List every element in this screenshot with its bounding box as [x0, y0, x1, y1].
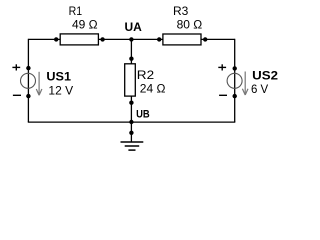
- svg-text:80 Ω: 80 Ω: [177, 18, 203, 32]
- svg-text:24 Ω: 24 Ω: [140, 82, 166, 96]
- resistor R3: [163, 34, 201, 45]
- svg-text:49 Ω: 49 Ω: [72, 18, 98, 32]
- svg-text:6 V: 6 V: [251, 82, 268, 96]
- US2 plus sign: [218, 64, 226, 70]
- wire right vertical: [234, 39, 236, 122]
- wire UA to R2: [130, 39, 132, 64]
- voltage source US2 arrow: [242, 72, 248, 96]
- wire ground stub: [130, 122, 132, 142]
- node dot R3 right: [203, 37, 207, 41]
- node dot US1 bottom: [26, 94, 30, 98]
- node dot R1 left: [54, 37, 58, 41]
- svg-text:R1: R1: [69, 4, 83, 18]
- wire R2 to UB: [130, 96, 132, 123]
- node dot US1 top: [26, 66, 30, 70]
- US1 minus sign: [13, 94, 21, 96]
- wire left vertical: [27, 39, 29, 122]
- svg-text:R2: R2: [137, 68, 155, 82]
- svg-text:US2: US2: [252, 69, 278, 83]
- node dot R2 bottom: [129, 101, 133, 105]
- voltage source US1 arrow: [36, 72, 42, 95]
- node B junction dot: [129, 120, 133, 124]
- svg-text:12 V: 12 V: [48, 83, 73, 97]
- node dot R2 top: [129, 57, 133, 61]
- voltage source US2 circle: [227, 73, 242, 88]
- wire bottom horizontal: [28, 121, 236, 123]
- svg-text:R3: R3: [173, 4, 189, 18]
- US1 plus sign: [12, 64, 20, 70]
- svg-text:UB: UB: [136, 109, 150, 121]
- ground: [121, 142, 144, 150]
- voltage source US1 circle: [21, 73, 36, 88]
- svg-text:US1: US1: [46, 70, 71, 84]
- wire top horizontal: [28, 38, 234, 40]
- US2 minus sign: [219, 94, 227, 96]
- resistor R2: [125, 64, 136, 96]
- resistor R1: [60, 34, 98, 45]
- node dot ground stub: [129, 131, 133, 135]
- node dot US2 bottom: [233, 94, 237, 98]
- svg-text:UA: UA: [125, 20, 143, 34]
- node A junction dot: [129, 37, 133, 41]
- node dot R3 left: [157, 37, 161, 41]
- node dot R1 right: [100, 37, 104, 41]
- node dot US2 top: [233, 66, 237, 70]
